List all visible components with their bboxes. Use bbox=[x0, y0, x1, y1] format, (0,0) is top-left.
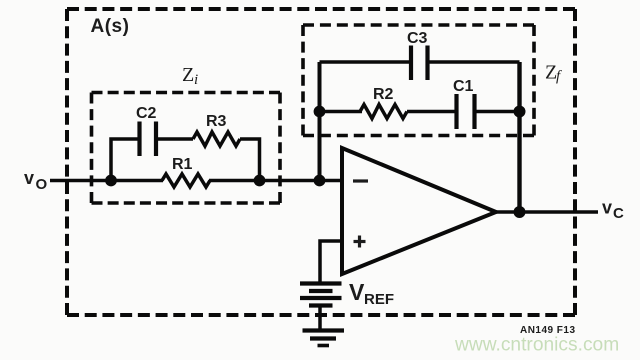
svg-text:i: i bbox=[194, 72, 198, 88]
label Zi bbox=[182, 64, 198, 88]
node vC label bbox=[602, 198, 624, 223]
svg-text:www.cntronics.com: www.cntronics.com bbox=[454, 335, 619, 356]
wire: R2 to C1 bbox=[407, 110, 455, 114]
junction dot Zi right bbox=[254, 175, 266, 187]
label VREF bbox=[349, 279, 394, 308]
wire: C3 to right riser bbox=[429, 60, 520, 64]
wire: Zf left riser (top branch to inverting node) bbox=[318, 62, 322, 181]
junction dot Zf right bbox=[514, 106, 526, 118]
capacitor C3 bbox=[411, 46, 428, 81]
svg-text:Z: Z bbox=[182, 64, 194, 86]
wire: middle branch left bbox=[320, 110, 363, 114]
wire: non-inverting input to battery bbox=[320, 241, 342, 283]
svg-text:C1: C1 bbox=[453, 78, 474, 95]
wire: top branch left to C3 bbox=[320, 60, 410, 64]
label Zf bbox=[545, 62, 562, 85]
capacitor C2 bbox=[140, 122, 157, 157]
resistor R1 bbox=[162, 174, 210, 187]
svg-text:R2: R2 bbox=[373, 86, 394, 103]
svg-text:v: v bbox=[602, 198, 612, 218]
svg-text:REF: REF bbox=[364, 291, 394, 308]
wire: R1 to inverting input bbox=[209, 179, 342, 183]
wire: C1 to right riser bbox=[476, 110, 520, 114]
junction dot Zf left bbox=[314, 106, 326, 118]
ground bbox=[303, 331, 345, 346]
wire: op-amp output to vC bbox=[496, 210, 598, 214]
junction dot Zi left bbox=[105, 175, 117, 187]
capacitor C1 bbox=[457, 94, 475, 129]
junction dot inverting input node bbox=[314, 175, 326, 187]
resistor R2 bbox=[360, 105, 407, 119]
svg-text:C3: C3 bbox=[407, 30, 428, 47]
Zi network dashed box bbox=[92, 93, 281, 204]
svg-text:C: C bbox=[613, 205, 624, 222]
wire: R3 to Zi right riser bbox=[240, 139, 260, 181]
node vO label bbox=[24, 168, 48, 193]
wire: Zf right riser to output node bbox=[517, 62, 521, 212]
resistor R3 bbox=[193, 132, 240, 146]
svg-text:V: V bbox=[349, 279, 365, 305]
wire: Zi left riser bbox=[111, 139, 138, 181]
battery VREF bbox=[300, 284, 342, 306]
svg-text:C2: C2 bbox=[136, 105, 157, 122]
junction dot output node bbox=[514, 206, 526, 218]
svg-text:f: f bbox=[556, 69, 562, 85]
svg-text:v: v bbox=[24, 168, 34, 188]
Zf network dashed box bbox=[303, 25, 534, 136]
wire: C2 to R3 bbox=[158, 137, 193, 141]
op-amp U1 bbox=[342, 148, 496, 274]
svg-text:R1: R1 bbox=[172, 156, 193, 173]
svg-text:A(s): A(s) bbox=[91, 16, 130, 37]
op-amp inverting pin marker - bbox=[353, 179, 368, 182]
wire: battery to ground bbox=[318, 306, 322, 331]
wire: vO input to R1 bbox=[50, 179, 163, 183]
svg-text:O: O bbox=[36, 176, 48, 193]
svg-text:R3: R3 bbox=[206, 113, 227, 130]
outer dashed box A(s) bbox=[67, 9, 575, 315]
op-amp non-inverting pin marker + bbox=[354, 236, 366, 248]
